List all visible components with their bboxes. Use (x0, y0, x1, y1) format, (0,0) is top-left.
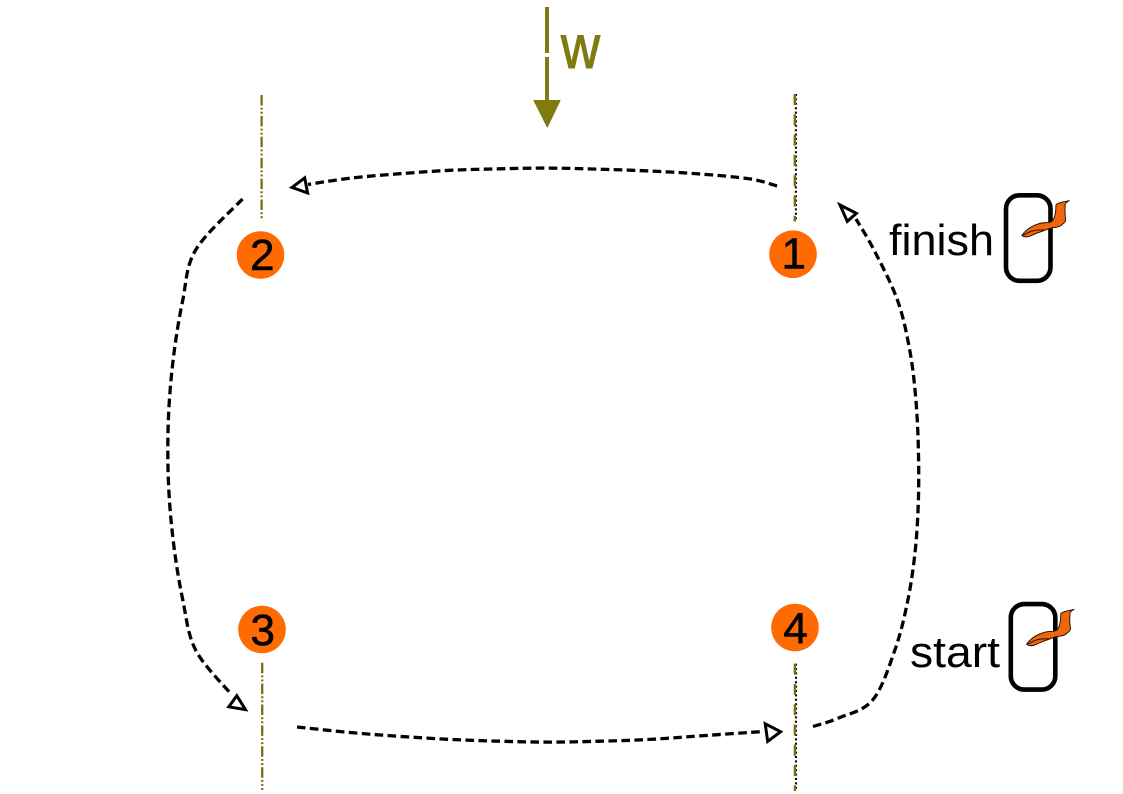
node 2 (237, 231, 285, 280)
igniter icon at finish (1006, 195, 1069, 280)
svg-text:finish: finish (889, 216, 994, 265)
svg-text:2: 2 (250, 231, 274, 280)
wire right arc start to finish (813, 205, 919, 727)
arrowhead at node 3 (229, 696, 246, 710)
rail above node 1 (olive dash + black dots) (795, 94, 796, 222)
rail below node 4 (olive dash + black dots) (795, 664, 796, 791)
node 3 (238, 606, 286, 655)
node 4 (771, 604, 819, 654)
wire top arc 1 to 2 (292, 168, 777, 193)
weight arrowhead (534, 101, 560, 128)
weight arrow shaft (w load) (534, 7, 560, 127)
arrowhead at node 2 (292, 178, 308, 193)
igniter icon at start (1011, 604, 1074, 690)
arrowhead at finish (840, 205, 856, 221)
svg-text:start: start (910, 628, 1000, 677)
node 1 (769, 229, 817, 278)
svg-text:1: 1 (782, 229, 806, 278)
svg-text:3: 3 (250, 606, 274, 655)
svg-text:w: w (560, 13, 601, 81)
wire bottom arc 3 to 4 (297, 724, 781, 742)
wire left arc 2 to 3 (168, 199, 246, 710)
svg-text:4: 4 (783, 604, 807, 653)
rail above node 2 (olive dash-dot) (260, 95, 262, 221)
rail below node 3 (olive dash-dot) (261, 663, 263, 790)
arrowhead at node 4 (765, 724, 780, 742)
